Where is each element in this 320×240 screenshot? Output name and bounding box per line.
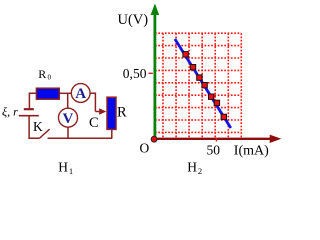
rheostat R (blue box vertical)	[107, 97, 116, 129]
voltmeter V	[59, 108, 78, 127]
svg-text:0: 0	[48, 74, 52, 82]
wiper arrow into rheostat at C	[95, 108, 106, 115]
svg-text:C: C	[89, 115, 99, 131]
data fit line (blue)	[175, 39, 231, 128]
wire top-left vertical from battery to resistor stub	[29, 93, 36, 108]
tick 0,50 on y-axis	[149, 72, 153, 74]
svg-text:0,: 0,	[123, 66, 133, 81]
wire left vertical from battery to bottom-left corner	[29, 117, 39, 139]
svg-text:1: 1	[69, 166, 73, 176]
tick 50 on x-axis	[215, 138, 217, 142]
wire voltmeter bottom stub	[67, 127, 69, 138]
wire rheostat bottom stub	[111, 130, 113, 139]
ammeter A	[71, 84, 90, 103]
svg-text:H: H	[58, 160, 68, 175]
wire resistor to ammeter	[59, 92, 72, 94]
resistor R0 (blue box)	[36, 88, 59, 99]
grid red dotted	[155, 33, 241, 138]
svg-text:A: A	[75, 86, 86, 102]
svg-text:ξ, r: ξ, r	[2, 105, 18, 119]
y-axis U (green)	[151, 4, 160, 140]
svg-text:K: K	[33, 119, 43, 134]
data markers (red squares)	[183, 52, 227, 120]
battery ξ,r (long bar bottom)	[19, 115, 39, 117]
svg-text:R: R	[38, 67, 46, 81]
node junction to voltmeter	[67, 93, 69, 109]
svg-text:H: H	[187, 160, 197, 175]
svg-text:V: V	[63, 111, 74, 127]
svg-text:I(mA): I(mA)	[234, 143, 269, 158]
wire ammeter right with corner down to wiper	[90, 93, 95, 111]
svg-text:2: 2	[198, 166, 202, 176]
battery ξ,r (short bar top)	[24, 108, 34, 110]
svg-text:50: 50	[133, 66, 147, 81]
wire bottom from switch to rheostat stub	[48, 137, 113, 139]
switch K blade (open diagonal)	[39, 129, 49, 138]
origin dot	[151, 136, 157, 142]
svg-text:50: 50	[207, 143, 221, 158]
svg-text:U(V): U(V)	[118, 12, 149, 28]
svg-text:O: O	[140, 141, 150, 156]
x-axis I (dark red)	[152, 135, 281, 143]
svg-text:R: R	[117, 105, 127, 121]
